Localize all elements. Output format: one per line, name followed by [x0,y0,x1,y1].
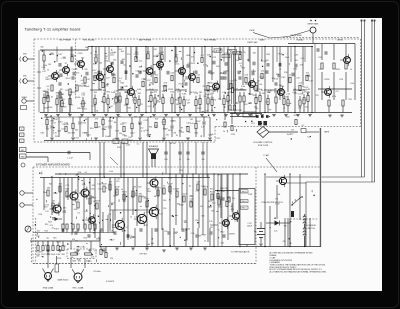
svg-text:2.2: 2.2 [225,56,228,58]
svg-text:6.8k: 6.8k [41,133,45,135]
svg-text:15k: 15k [150,92,153,94]
svg-text:220: 220 [84,69,87,71]
svg-text:15k: 15k [155,75,158,77]
svg-text:5.6k: 5.6k [190,123,194,125]
svg-text:2x: 2x [162,140,164,142]
svg-text:1k: 1k [176,135,178,137]
svg-text:5.6k: 5.6k [221,243,225,245]
svg-text:1M: 1M [153,104,156,106]
svg-text:R24: R24 [105,61,108,63]
svg-text:1M: 1M [278,194,281,196]
svg-text:TAPE: TAPE [324,131,330,134]
svg-text:2.2k: 2.2k [193,92,197,94]
svg-text:R118: R118 [77,108,81,110]
svg-text:1k: 1k [123,64,125,66]
svg-text:270: 270 [316,95,319,97]
svg-text:1M: 1M [190,119,193,121]
svg-text:220: 220 [97,126,100,128]
svg-text:5.6k: 5.6k [111,92,115,94]
svg-text:0.47: 0.47 [309,80,313,82]
svg-text:1k: 1k [179,159,181,161]
svg-text:C57: C57 [335,91,338,93]
svg-text:47k: 47k [210,73,213,75]
svg-text:4.7k: 4.7k [105,85,109,87]
svg-text:2.2k: 2.2k [210,98,214,100]
svg-text:820: 820 [134,117,137,119]
svg-text:33k: 33k [99,62,102,64]
svg-text:1k: 1k [204,240,206,242]
svg-text:47k: 47k [213,100,216,102]
svg-text:VOLUME CONTROL: VOLUME CONTROL [253,142,273,144]
svg-text:C131: C131 [231,134,236,136]
svg-text:DM M: DM M [249,30,254,32]
svg-text:17k: 17k [232,198,235,200]
svg-text:4.7k: 4.7k [48,78,52,80]
svg-text:1M: 1M [113,122,116,124]
svg-text:R24: R24 [205,94,208,96]
svg-text:1M: 1M [291,129,294,131]
svg-text:PCB 2-816: PCB 2-816 [258,145,269,147]
svg-text:68k: 68k [221,191,224,193]
svg-text:R118: R118 [83,133,87,135]
svg-text:5.6k: 5.6k [189,199,193,201]
svg-text:120: 120 [168,178,171,180]
svg-text:AT 2M: AT 2M [170,142,176,145]
svg-text:120: 120 [110,258,113,260]
svg-text:R118: R118 [57,258,61,260]
svg-text:2.2k: 2.2k [274,79,278,81]
svg-text:115 kHz: 115 kHz [93,271,100,273]
svg-text:REMY HAT: REMY HAT [247,41,258,44]
svg-text:5.6k: 5.6k [134,216,138,218]
svg-text:R10: R10 [83,237,86,239]
svg-text:1M: 1M [218,98,221,100]
svg-text:REC PREAM: REC PREAM [204,38,216,41]
svg-text:68k: 68k [78,260,81,262]
svg-text:R139: R139 [294,115,299,117]
svg-text:1M: 1M [143,79,146,81]
svg-text:220: 220 [154,49,157,51]
svg-text:47k: 47k [217,191,220,193]
svg-text:68k: 68k [74,251,77,253]
svg-text:100: 100 [187,229,190,231]
svg-text:10uF: 10uF [168,184,173,186]
svg-text:180: 180 [207,206,210,208]
svg-text:0.1: 0.1 [78,212,81,214]
svg-text:4.7k: 4.7k [59,94,63,96]
svg-text:R24: R24 [253,95,256,97]
svg-text:820: 820 [294,60,297,62]
svg-text:33k: 33k [276,74,279,76]
svg-text:R24: R24 [241,67,244,69]
svg-text:C12: C12 [139,104,142,106]
svg-text:4.7k: 4.7k [201,126,205,128]
svg-text:MIC: MIC [23,54,27,56]
svg-text:33k: 33k [94,73,97,75]
svg-text:0.47: 0.47 [109,106,113,108]
svg-text:4.7k: 4.7k [45,245,49,247]
svg-text:5.6k: 5.6k [303,89,307,91]
svg-text:C112: C112 [110,55,114,57]
svg-text:Tandberg T-11 amplifier board: Tandberg T-11 amplifier board [25,27,81,32]
svg-text:C55: C55 [318,57,321,59]
svg-text:10uF: 10uF [208,82,213,84]
svg-text:2.2k: 2.2k [274,230,278,232]
svg-text:C112: C112 [120,124,124,126]
svg-text:C112: C112 [216,138,220,140]
svg-text:1.1 uF: 1.1 uF [67,158,73,160]
svg-text:47k: 47k [255,97,258,99]
svg-text:0.1: 0.1 [129,235,132,237]
svg-text:68k: 68k [149,127,152,129]
svg-text:33k: 33k [75,130,78,132]
svg-text:SOLENOID: SOLENOID [306,225,316,227]
svg-text:820: 820 [62,254,65,256]
svg-text:47k: 47k [76,73,79,75]
svg-text:1k: 1k [131,196,133,198]
svg-text:AMP PREAM: AMP PREAM [139,38,151,41]
svg-text:68k: 68k [284,226,287,228]
svg-text:REC 1/2AB: REC 1/2AB [73,287,84,290]
svg-text:1k: 1k [130,217,132,219]
svg-text:1M: 1M [51,53,54,55]
svg-text:R161: R161 [129,140,133,142]
svg-text:220: 220 [116,181,119,183]
svg-text:R24: R24 [45,224,48,226]
svg-text:10uF: 10uF [109,231,114,233]
svg-text:2.2k: 2.2k [139,60,143,62]
svg-text:1k: 1k [289,75,291,77]
svg-text:100k: 100k [72,261,76,263]
svg-text:68k: 68k [113,75,116,77]
svg-text:4.7k: 4.7k [307,76,311,78]
svg-text:SPEAKER: SPEAKER [149,145,159,148]
svg-text:3.9k: 3.9k [350,83,354,85]
svg-text:1M: 1M [199,92,202,94]
svg-text:C112: C112 [281,77,285,79]
svg-text:2.2k: 2.2k [179,69,183,71]
svg-text:REL C: REL C [242,208,248,210]
svg-text:C163: C163 [126,145,130,147]
svg-text:5.6k: 5.6k [234,220,238,222]
svg-text:47k: 47k [240,89,243,91]
svg-text:C112: C112 [134,54,140,56]
svg-text:R10: R10 [76,253,79,255]
svg-text:15k: 15k [195,220,198,222]
svg-text:2.2k: 2.2k [82,86,86,88]
svg-text:0.47: 0.47 [81,80,85,82]
svg-text:1k: 1k [163,186,165,188]
svg-text:VOL: VOL [251,123,255,125]
svg-text:1k: 1k [350,69,352,71]
svg-text:C12: C12 [140,128,143,130]
svg-text:4.7: 4.7 [302,125,305,127]
svg-text:1M: 1M [187,103,190,105]
svg-text:GRAM: GRAM [21,96,27,99]
svg-text:0.47: 0.47 [119,49,123,51]
svg-text:C112: C112 [45,204,49,206]
svg-text:C106: C106 [76,97,81,99]
svg-text:R118: R118 [179,205,183,207]
svg-text:180: 180 [279,85,282,87]
svg-text:68k: 68k [141,196,144,198]
svg-text:100: 100 [307,136,310,138]
svg-text:6.8k: 6.8k [137,89,141,91]
svg-text:OPT AT: OPT AT [139,253,147,256]
svg-text:C112: C112 [175,63,179,65]
svg-text:33k: 33k [82,184,85,186]
svg-text:33k: 33k [62,124,65,126]
svg-text:C12: C12 [45,211,48,213]
svg-text:820: 820 [175,232,178,234]
svg-text:180: 180 [164,159,167,161]
svg-text:6.8k: 6.8k [300,86,304,88]
svg-text:68k: 68k [70,257,73,259]
svg-text:50k: 50k [40,47,43,49]
svg-text:0.1: 0.1 [86,218,89,220]
svg-text:5.6k: 5.6k [78,172,82,174]
svg-text:R24: R24 [44,231,47,233]
svg-text:180: 180 [85,47,88,49]
svg-text:1k: 1k [188,132,190,134]
svg-text:180: 180 [274,88,277,90]
svg-text:2.2k: 2.2k [75,241,79,243]
svg-text:1k: 1k [93,201,95,203]
svg-text:0.1: 0.1 [94,250,97,252]
svg-text:MIC: MIC [23,76,27,78]
svg-text:15k: 15k [298,107,301,109]
svg-text:P.EQS MIKE: P.EQS MIKE [290,35,302,37]
svg-text:1M: 1M [149,83,152,85]
svg-text:390: 390 [122,135,125,137]
svg-text:100: 100 [37,230,40,232]
svg-text:1M: 1M [60,89,63,91]
svg-text:10uF: 10uF [115,187,120,189]
svg-text:4.7k: 4.7k [301,58,305,60]
svg-text:47k: 47k [91,185,94,187]
svg-text:390: 390 [65,90,68,92]
svg-text:47k: 47k [95,119,98,121]
svg-text:R118: R118 [279,90,283,92]
svg-text:2.2k: 2.2k [244,75,248,77]
svg-text:4.7k: 4.7k [141,130,145,132]
svg-text:15k: 15k [260,90,263,92]
svg-text:68k: 68k [135,52,138,54]
svg-text:10uF: 10uF [112,227,117,229]
svg-text:4.7k: 4.7k [196,191,200,193]
svg-text:ERA 1/2AB: ERA 1/2AB [43,287,54,290]
svg-text:120: 120 [91,196,94,198]
svg-text:1M: 1M [99,89,102,91]
svg-text:REC CAL: REC CAL [77,246,87,249]
svg-text:15k: 15k [186,159,189,161]
svg-text:6.8k: 6.8k [146,244,150,246]
svg-text:68k: 68k [151,243,154,245]
svg-text:1k: 1k [47,69,49,71]
svg-text:820: 820 [184,240,187,242]
svg-text:R10: R10 [88,261,91,263]
svg-text:0.1: 0.1 [85,172,88,174]
svg-text:4.7k: 4.7k [50,225,54,227]
svg-text:TO THE INDICATOR: TO THE INDICATOR [231,251,250,254]
svg-text:1798: 1798 [248,194,252,196]
svg-text:1k: 1k [71,104,73,106]
svg-text:10uF: 10uF [220,73,225,75]
svg-text:C112: C112 [41,254,45,256]
svg-text:5.6k: 5.6k [235,60,239,62]
svg-text:1k: 1k [231,206,233,208]
svg-text:1M: 1M [98,238,101,240]
svg-text:2N2907: 2N2907 [229,234,235,236]
svg-text:1M: 1M [76,61,79,63]
svg-text:4.7k: 4.7k [194,133,198,135]
svg-text:1M: 1M [45,127,48,129]
svg-text:5.6k: 5.6k [88,222,92,224]
svg-text:4.7k: 4.7k [53,132,57,134]
svg-text:1M: 1M [133,186,136,188]
svg-text:1k: 1k [105,187,107,189]
svg-text:47k: 47k [72,239,75,241]
svg-text:TR9: TR9 [348,99,352,101]
svg-text:15k: 15k [201,159,204,161]
svg-text:33k: 33k [59,184,62,186]
svg-text:5.6k: 5.6k [109,171,113,173]
svg-text:C112: C112 [171,120,175,122]
svg-text:33k: 33k [254,106,257,108]
svg-text:1k: 1k [211,134,213,136]
svg-text:F-16023: F-16023 [106,281,115,283]
svg-text:0.47: 0.47 [42,71,46,73]
svg-text:6.8k: 6.8k [132,99,136,101]
svg-text:100: 100 [62,99,65,101]
svg-text:BIAS: BIAS [260,38,265,41]
svg-text:180: 180 [286,116,289,118]
svg-text:100uF: 100uF [247,226,253,228]
svg-text:1k: 1k [90,53,92,55]
svg-text:10uF: 10uF [156,102,161,104]
svg-text:6.8k: 6.8k [74,209,78,211]
svg-text:2.2k: 2.2k [41,67,45,69]
svg-text:4.7k: 4.7k [203,65,207,67]
svg-text:4.7k: 4.7k [57,131,61,133]
svg-text:6.8k: 6.8k [56,254,60,256]
svg-text:1k: 1k [77,200,79,202]
svg-text:R118: R118 [216,51,220,53]
svg-text:2.2k: 2.2k [219,198,223,200]
svg-text:4.7k: 4.7k [268,91,272,93]
svg-text:C112: C112 [46,251,50,253]
svg-text:5.6k: 5.6k [305,106,309,108]
svg-text:10uF: 10uF [287,103,292,105]
svg-text:1M: 1M [52,201,55,203]
svg-text:2.2k: 2.2k [191,233,195,235]
svg-text:47k: 47k [164,83,167,85]
svg-text:ALL TRANS NO-SIG READINGS AT: ALL TRANS NO-SIG READINGS AT NORMAL OPER… [270,271,327,274]
svg-text:REC EQUAL: REC EQUAL [83,38,95,41]
svg-text:5.6k: 5.6k [259,84,263,86]
svg-text:2.2k: 2.2k [298,83,302,85]
svg-text:10uF: 10uF [225,201,230,203]
svg-text:390: 390 [81,57,84,59]
svg-text:MIC PREAM: MIC PREAM [59,38,71,41]
svg-text:4.7k: 4.7k [254,89,258,91]
svg-text:EQUAL: EQUAL [297,38,305,41]
svg-text:4.7k: 4.7k [113,98,117,100]
svg-text:P200 REC/PB SWITCH: P200 REC/PB SWITCH [261,202,283,204]
svg-text:4.7k: 4.7k [332,96,336,98]
svg-text:R107: R107 [197,108,202,110]
svg-text:33k: 33k [226,71,229,73]
svg-text:R24: R24 [229,50,232,52]
svg-text:4.7k: 4.7k [292,92,296,94]
svg-text:33k: 33k [65,124,68,126]
svg-text:120: 120 [124,105,127,107]
svg-text:10uF: 10uF [85,86,90,88]
svg-text:C112: C112 [61,246,65,248]
svg-text:0.1: 0.1 [126,227,129,229]
svg-text:R10: R10 [47,254,50,256]
svg-text:47k: 47k [300,65,303,67]
svg-text:B POWER AMPLIFIER BOARD: B POWER AMPLIFIER BOARD [36,164,70,167]
svg-text:MIKE MAX: MIKE MAX [308,23,319,26]
svg-text:1k: 1k [132,189,134,191]
svg-text:68k: 68k [37,256,40,258]
svg-text:SWITCH: SWITCH [307,228,315,230]
svg-text:REC MOTOR: REC MOTOR [230,110,242,112]
svg-text:1M: 1M [48,64,51,66]
svg-text:R24: R24 [293,68,296,70]
svg-text:220: 220 [179,170,182,172]
svg-text:180: 180 [184,222,187,224]
svg-text:820: 820 [138,187,141,189]
svg-text:0.5: 0.5 [137,144,140,146]
svg-text:R141: R141 [336,69,341,71]
svg-text:2.2k: 2.2k [209,221,213,223]
svg-text:33k: 33k [272,78,275,80]
svg-text:100: 100 [67,132,70,134]
svg-text:R104: R104 [48,107,53,109]
svg-text:LEVEL: LEVEL [337,39,344,41]
svg-text:100: 100 [205,111,208,113]
svg-text:1M: 1M [275,199,278,201]
svg-text:C103: C103 [78,53,83,55]
svg-text:C112: C112 [180,132,184,134]
svg-text:0.1: 0.1 [239,63,242,65]
svg-text:2.2k: 2.2k [91,257,95,259]
svg-text:10uF: 10uF [105,136,110,138]
svg-text:220: 220 [282,241,285,243]
svg-text:220: 220 [164,231,167,233]
svg-text:R118: R118 [36,252,40,254]
svg-text:REL B: REL B [242,201,248,203]
svg-text:C112: C112 [98,189,102,191]
svg-text:1k: 1k [236,102,238,104]
svg-text:390: 390 [201,215,204,217]
svg-text:33k: 33k [134,195,137,197]
svg-text:R118: R118 [56,241,60,243]
svg-text:47k: 47k [243,52,246,54]
svg-text:10uF: 10uF [125,92,130,94]
svg-text:TR10: TR10 [220,232,224,234]
svg-text:0.1: 0.1 [319,69,322,71]
svg-text:R24: R24 [147,191,150,193]
svg-text:1k: 1k [223,131,225,133]
svg-text:5.6k: 5.6k [170,73,174,75]
svg-text:47k: 47k [166,135,169,137]
svg-text:47k: 47k [192,63,195,65]
svg-text:TL AM: TL AM [263,154,269,157]
svg-text:47k: 47k [191,57,194,59]
